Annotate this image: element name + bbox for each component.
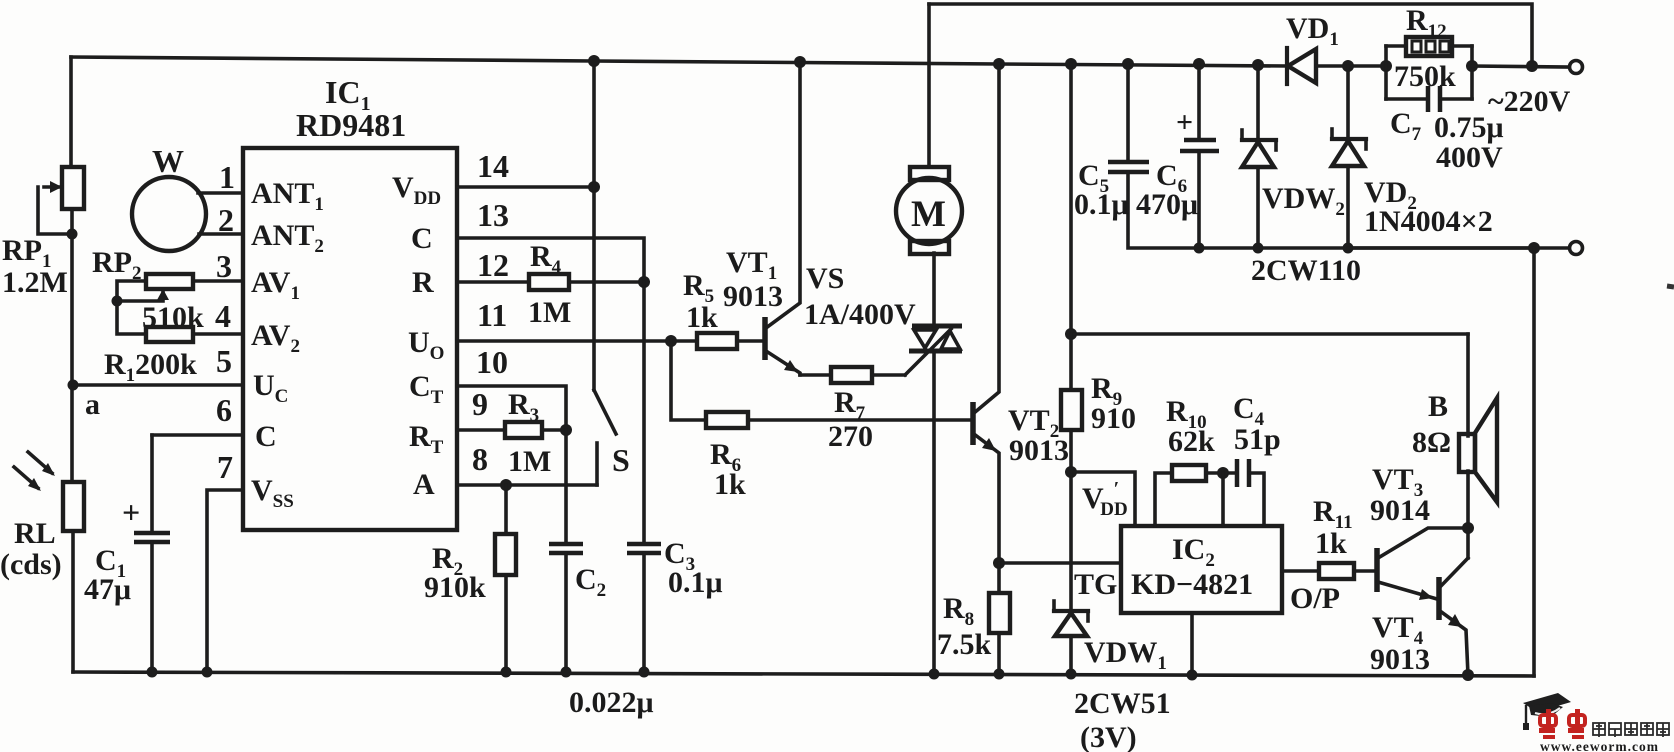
node VD2 bus junction	[1343, 243, 1354, 254]
svg-text:C7: C7	[1390, 107, 1422, 145]
node dropper right junction	[1466, 60, 1478, 72]
capacitor C3	[627, 542, 661, 547]
svg-text:R7: R7	[834, 386, 866, 424]
svg-text:9013: 9013	[1370, 643, 1430, 676]
switch S bottom contact	[595, 443, 599, 485]
node R3 right junction	[560, 424, 572, 436]
photoresistor RL	[63, 482, 84, 531]
svg-text:6: 6	[216, 392, 232, 428]
wire pin7 Vss down	[207, 490, 243, 672]
svg-text:CT: CT	[409, 370, 444, 408]
svg-text:VD1: VD1	[1286, 12, 1339, 50]
svg-text:V′DD: V′DD	[1082, 478, 1128, 520]
svg-text:3: 3	[216, 248, 232, 284]
node dropper left junction	[1380, 60, 1392, 72]
wire RP2 wiper	[117, 292, 163, 301]
wire to speaker line	[1071, 332, 1468, 336]
svg-text:VS: VS	[806, 262, 844, 295]
resistor R6	[706, 412, 748, 428]
wire rail down to R9 top node	[1069, 64, 1073, 334]
node RP2 wiper junction	[112, 296, 123, 307]
node Uo junction	[665, 335, 677, 347]
scan artifact dash right edge	[1667, 286, 1674, 287]
transistor VT3 collector	[1378, 528, 1468, 558]
transistor VT1 base bar	[762, 317, 768, 360]
svg-text:9013: 9013	[1009, 434, 1069, 467]
node VT1 collector rail junction	[794, 56, 806, 68]
light arrow 1	[28, 452, 52, 473]
node rail junction C5	[1122, 58, 1134, 70]
wire pin11 Uo	[457, 339, 671, 343]
resistor R10	[1155, 473, 1172, 526]
wire bottom ground rail	[73, 672, 1534, 676]
transistor VT2 collector	[974, 64, 999, 413]
wire bus to AC terminal bottom	[1348, 246, 1569, 250]
svg-text:S: S	[612, 442, 630, 478]
svg-text:13: 13	[477, 197, 509, 233]
svg-text:8: 8	[472, 441, 488, 477]
svg-text:+: +	[122, 494, 140, 530]
svg-text:0.022μ: 0.022μ	[569, 686, 654, 719]
node C6 bus junction	[1194, 243, 1205, 254]
wire triac bottom to ground rail	[932, 352, 936, 674]
resistor RP1	[62, 167, 84, 209]
svg-text:2CW51: 2CW51	[1074, 687, 1171, 720]
wire IC2 bottom to ground	[1190, 613, 1194, 675]
svg-text:2: 2	[218, 202, 234, 238]
resistor R2	[504, 485, 508, 534]
svg-text:7.5k: 7.5k	[937, 628, 992, 661]
transistor VT4 emitter with arrow	[1440, 611, 1468, 675]
wire right edge vertical	[1532, 248, 1536, 676]
sensor W circle	[132, 177, 206, 251]
svg-text:AV1: AV1	[251, 266, 300, 304]
zener VDW1	[1069, 472, 1073, 610]
svg-text:1A/400V: 1A/400V	[804, 298, 916, 331]
resistor R12	[1384, 46, 1388, 99]
svg-text:470μ: 470μ	[1136, 188, 1198, 221]
speaker B	[1466, 334, 1470, 436]
node R10-C4 junction	[1217, 467, 1229, 479]
wire emitter to R7	[800, 373, 831, 377]
svg-text:KD−4821: KD−4821	[1131, 568, 1253, 601]
terminal AC top	[1570, 61, 1583, 74]
svg-text:ANT1: ANT1	[251, 177, 324, 215]
wire pin6 C line	[152, 433, 243, 437]
svg-text:O/P: O/P	[1290, 582, 1340, 615]
resistor R3	[505, 422, 542, 438]
logo graduation cap	[1523, 693, 1571, 712]
wire pin12 R with resistor R4	[457, 280, 529, 284]
node VT2 collector rail junction	[993, 58, 1005, 70]
wire pin13 C	[457, 238, 644, 282]
svg-text:VT1: VT1	[726, 246, 777, 284]
resistor R5	[671, 339, 697, 343]
transistor VT3 emitter with arrow	[1378, 582, 1437, 599]
node rail junction x1071	[1065, 58, 1077, 70]
node R9 top junction	[1065, 328, 1077, 340]
svg-text:9014: 9014	[1370, 494, 1430, 527]
svg-text:www.eeworm.com: www.eeworm.com	[1540, 739, 1659, 752]
capacitor C7	[1386, 97, 1428, 101]
transistor VT1 emitter with arrow	[766, 351, 800, 375]
svg-text:12: 12	[477, 247, 509, 283]
node IC2 ground junction	[1187, 670, 1198, 681]
svg-text:VDW2: VDW2	[1262, 182, 1345, 220]
svg-text:(cds): (cds)	[0, 548, 62, 581]
node Vdd' junction	[1065, 466, 1077, 478]
svg-text:1k: 1k	[714, 468, 746, 501]
wire triac top to motor	[932, 253, 936, 326]
svg-text:RP2: RP2	[92, 246, 142, 284]
wire top rail (second rail, +V)	[71, 57, 1287, 66]
svg-text:RT: RT	[409, 420, 444, 458]
node C3 ground junction	[639, 667, 650, 678]
switch S blade	[594, 390, 616, 434]
wire R3 junction down to C2	[564, 430, 568, 543]
svg-text:IC2: IC2	[1172, 533, 1215, 571]
wire Uo junction down to R6 line	[671, 341, 706, 420]
diode VD1	[1285, 48, 1289, 84]
svg-text:8Ω: 8Ω	[1412, 426, 1451, 459]
svg-text:51p: 51p	[1234, 423, 1281, 456]
wire vertical rail to switch top	[592, 61, 596, 390]
node VT4 emitter ground junction	[1462, 669, 1474, 681]
resistor R7	[831, 367, 872, 383]
svg-text:0.1μ: 0.1μ	[668, 566, 723, 599]
light arrow 2	[14, 467, 38, 488]
IC U1 RD9481 box	[243, 148, 457, 530]
svg-text:R4: R4	[530, 240, 562, 278]
svg-text:9: 9	[472, 386, 488, 422]
node triac ground junction	[929, 669, 940, 680]
wire RP2 left lead + bracket down	[117, 281, 146, 334]
capacitor C2	[549, 542, 583, 547]
transistor VT2 base bar	[970, 402, 976, 445]
svg-text:5: 5	[216, 343, 232, 379]
node VT2 emitter junction	[993, 557, 1005, 569]
svg-text:910k: 910k	[424, 571, 486, 604]
svg-text:C: C	[255, 420, 277, 453]
node C2 ground junction	[561, 667, 572, 678]
svg-text:A: A	[413, 468, 435, 501]
svg-text:0.1μ: 0.1μ	[1074, 188, 1129, 221]
resistor R4	[529, 274, 569, 290]
wire Vdd' to IC2	[1071, 472, 1135, 526]
wire motor top to topmost rail	[927, 4, 931, 167]
svg-text:14: 14	[477, 148, 509, 184]
svg-text:RD9481: RD9481	[296, 107, 406, 143]
svg-text:R: R	[412, 266, 434, 299]
wire pin14 Vdd	[457, 185, 594, 189]
svg-text:+: +	[1176, 106, 1193, 139]
wire RP2 right lead to pin3	[193, 279, 243, 283]
svg-text:ANT2: ANT2	[251, 219, 324, 257]
svg-text:M: M	[911, 194, 946, 235]
svg-text:62k: 62k	[1168, 425, 1215, 458]
zener VD2	[1346, 66, 1350, 138]
wire pin8 A line	[457, 483, 597, 487]
resistor R9	[1069, 334, 1073, 390]
wire left vertical RP1 to RL	[70, 209, 74, 482]
svg-text:C2: C2	[575, 563, 606, 601]
transistor VT4 collector	[1440, 558, 1468, 587]
svg-text:R1200k: R1200k	[104, 348, 197, 386]
capacitor C5	[1126, 64, 1130, 161]
wire R1 right lead to pin4	[193, 332, 243, 336]
capacitor C6	[1197, 64, 1201, 139]
zener VDW2	[1256, 65, 1260, 139]
svg-text:a: a	[85, 388, 100, 421]
svg-text:VDW1: VDW1	[1084, 636, 1167, 674]
resistor R1	[146, 327, 193, 342]
node VDW2 bus junction	[1253, 243, 1264, 254]
svg-text:1M: 1M	[508, 445, 551, 478]
svg-text:VDD: VDD	[392, 171, 441, 209]
wire left vertical from rail to RP1	[69, 57, 73, 167]
transistor VT3 base bar	[1374, 548, 1380, 592]
svg-text:UO: UO	[408, 326, 444, 364]
node bus right junction	[1528, 242, 1540, 254]
svg-text:11: 11	[477, 297, 507, 333]
svg-text:7: 7	[217, 449, 233, 485]
node C1 ground junction	[147, 667, 158, 678]
svg-text:R8: R8	[943, 592, 974, 630]
svg-text:2CW110: 2CW110	[1251, 254, 1361, 287]
svg-text:4: 4	[215, 298, 231, 334]
wire pin9 Rt with resistor R3	[457, 428, 505, 432]
svg-text:400V: 400V	[1436, 141, 1503, 174]
node rail junction C6	[1193, 58, 1205, 70]
svg-text:1: 1	[219, 159, 235, 195]
node R8 ground junction	[994, 669, 1005, 680]
svg-text:TG: TG	[1074, 568, 1117, 601]
wire pin10 Ct	[457, 386, 566, 430]
IC U2 KD-4821 box	[1121, 526, 1282, 613]
wire to AC terminal top	[1472, 66, 1569, 67]
node VDW1 ground junction	[1066, 669, 1077, 680]
wire O/P line	[1282, 569, 1319, 573]
svg-text:B: B	[1428, 390, 1448, 423]
svg-text:1k: 1k	[1315, 527, 1347, 560]
node speaker junction	[1462, 522, 1474, 534]
node rail junction VD2	[1342, 60, 1354, 72]
svg-text:RL: RL	[14, 517, 56, 550]
node R4 right junction	[638, 276, 650, 288]
svg-text:270: 270	[828, 420, 873, 453]
node rail junction x594	[588, 55, 600, 67]
logo bug characters	[1539, 709, 1585, 739]
svg-text:C: C	[411, 222, 433, 255]
svg-text:47μ: 47μ	[84, 573, 131, 606]
resistor R8	[997, 563, 1001, 593]
resistor R11	[1319, 563, 1354, 579]
wire RL to bottom rail	[71, 531, 75, 672]
svg-text:1.2M: 1.2M	[2, 266, 68, 299]
svg-text:W: W	[152, 143, 184, 179]
wire vertical R4 junction down to C3	[642, 282, 646, 543]
svg-text:R12: R12	[1406, 4, 1447, 42]
node a junction dot	[68, 380, 79, 391]
node pin8 R2 junction	[500, 479, 512, 491]
wire W to pin1	[198, 191, 243, 195]
svg-text:10: 10	[476, 344, 508, 380]
transistor VT1 collector	[766, 62, 800, 328]
svg-text:1M: 1M	[528, 296, 571, 329]
wire node a to pin5	[73, 383, 243, 387]
capacitor C1	[150, 435, 154, 531]
triac VS symbol	[914, 330, 936, 348]
svg-text:1k: 1k	[686, 301, 718, 334]
wire topmost rail	[929, 4, 1532, 66]
node rail junction VDW2	[1252, 59, 1264, 71]
svg-text:R3: R3	[508, 388, 539, 426]
terminal AC bottom	[1570, 242, 1583, 255]
svg-text:AV2: AV2	[251, 319, 300, 357]
transistor VT2 emitter with arrow	[974, 434, 999, 563]
svg-text:750k: 750k	[1394, 60, 1456, 93]
motor M	[910, 167, 949, 180]
wire RP1 wiper arm and bracket	[44, 185, 62, 189]
potentiometer RP2	[146, 274, 193, 289]
svg-text:(3V): (3V)	[1080, 721, 1137, 752]
transistor VT4 base bar	[1436, 577, 1442, 620]
node topmost rail junction	[1526, 60, 1538, 72]
svg-text:1N4004×2: 1N4004×2	[1364, 205, 1493, 238]
svg-text:UC: UC	[253, 369, 288, 407]
svg-text:~220V: ~220V	[1488, 85, 1571, 118]
logo site name glyphs	[1593, 723, 1669, 737]
node RP1 bottom junction	[67, 229, 78, 240]
wire TG line to IC2	[999, 561, 1121, 565]
svg-text:VSS: VSS	[251, 474, 294, 512]
node Vss ground junction	[202, 667, 213, 678]
node R2 ground junction	[501, 667, 512, 678]
svg-text:910: 910	[1091, 402, 1136, 435]
capacitor C4	[1235, 459, 1240, 487]
node pin14 junction	[588, 181, 600, 193]
svg-text:9013: 9013	[723, 280, 783, 313]
wire W to pin2	[199, 232, 243, 236]
